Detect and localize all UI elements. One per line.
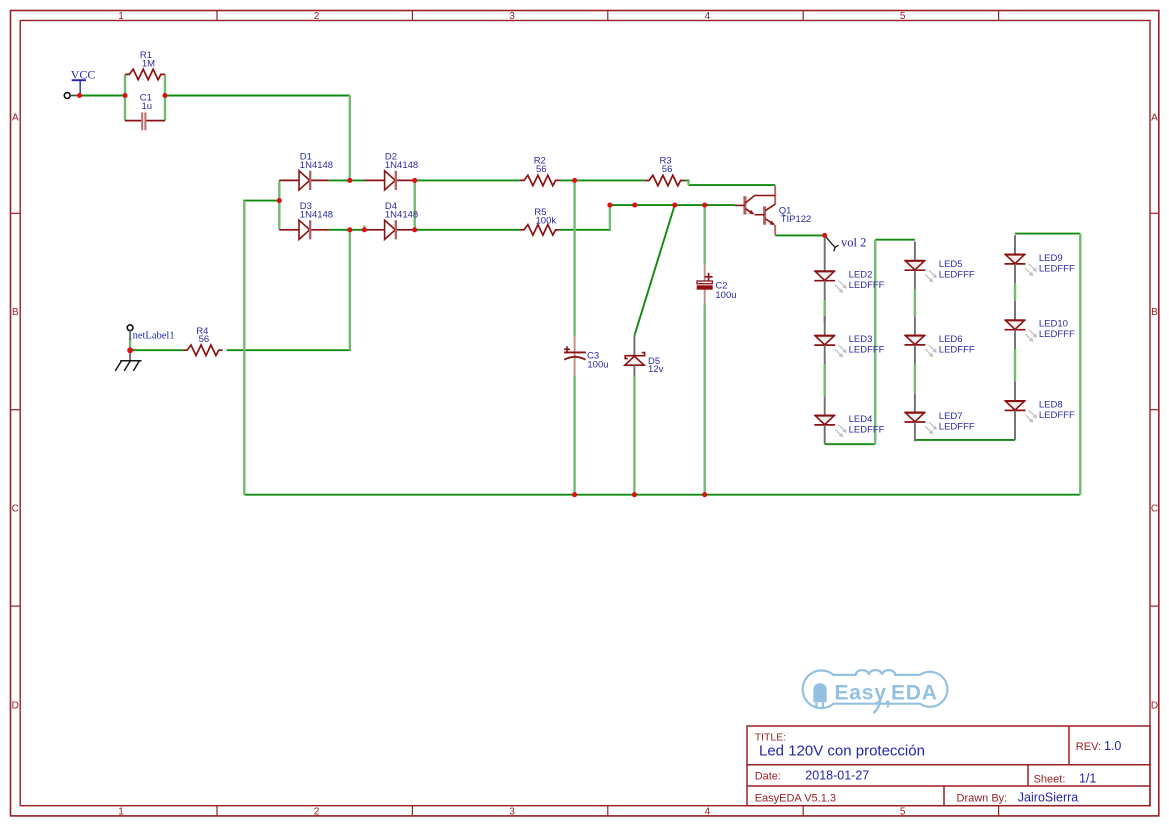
svg-text:1.0: 1.0 [1104,739,1121,753]
svg-text:1N4148: 1N4148 [385,209,418,220]
svg-text:1N4148: 1N4148 [300,209,333,220]
svg-text:D: D [12,700,19,711]
svg-text:TIP122: TIP122 [781,214,812,225]
svg-text:A: A [12,113,19,124]
svg-text:4: 4 [705,11,711,22]
svg-text:3: 3 [509,11,515,22]
svg-text:100u: 100u [587,360,608,371]
svg-text:LEDFFF: LEDFFF [1039,263,1075,274]
svg-text:B: B [1151,307,1158,318]
svg-text:A: A [1151,113,1158,124]
svg-text:LED7: LED7 [939,411,963,422]
svg-text:5: 5 [900,806,906,817]
svg-text:VCC: VCC [71,67,96,81]
svg-text:EasyEDA V5.1.3: EasyEDA V5.1.3 [755,793,836,805]
svg-text:100k: 100k [536,215,557,226]
svg-text:100u: 100u [715,290,736,301]
svg-text:LED10: LED10 [1039,319,1068,330]
svg-text:LEDFFF: LEDFFF [849,280,885,291]
svg-text:LED2: LED2 [849,270,873,281]
svg-text:C: C [12,504,19,515]
svg-text:Easy: Easy [835,682,887,705]
svg-text:LED4: LED4 [849,414,873,425]
svg-text:Sheet:: Sheet: [1034,773,1066,785]
svg-text:1: 1 [118,806,124,817]
svg-text:1/1: 1/1 [1079,771,1096,785]
svg-text:5: 5 [900,11,906,22]
svg-text:EDA: EDA [891,682,938,705]
svg-text:,: , [885,683,891,709]
svg-text:Drawn By:: Drawn By: [957,793,1008,805]
svg-text:REV:: REV: [1076,741,1101,753]
svg-text:LED9: LED9 [1039,253,1063,264]
svg-text:LED8: LED8 [1039,399,1063,410]
svg-text:1M: 1M [142,59,155,70]
svg-text:LEDFFF: LEDFFF [939,270,975,281]
svg-text:1u: 1u [142,101,153,112]
svg-text:1N4148: 1N4148 [385,160,418,171]
svg-text:JairoSierra: JairoSierra [1018,791,1078,805]
svg-text:Led 120V con protección: Led 120V con protección [759,743,925,760]
svg-text:2: 2 [314,806,320,817]
svg-text:netLabel1: netLabel1 [133,330,175,341]
svg-text:LED3: LED3 [849,334,873,345]
svg-text:56: 56 [536,164,547,175]
svg-text:1: 1 [118,11,124,22]
svg-text:vol 2: vol 2 [841,236,866,250]
svg-text:4: 4 [705,806,711,817]
svg-text:56: 56 [199,334,210,345]
svg-text:B: B [12,307,19,318]
svg-text:D: D [1151,700,1158,711]
svg-text:3: 3 [509,806,515,817]
svg-text:56: 56 [662,164,673,175]
svg-text:LEDFFF: LEDFFF [849,345,885,356]
svg-text:LEDFFF: LEDFFF [939,344,975,355]
svg-text:LED6: LED6 [939,334,963,345]
svg-text:LEDFFF: LEDFFF [939,422,975,433]
svg-text:LED5: LED5 [939,259,963,270]
svg-text:LEDFFF: LEDFFF [1039,329,1075,340]
svg-text:LEDFFF: LEDFFF [1039,410,1075,421]
svg-text:2: 2 [314,11,320,22]
svg-text:12v: 12v [648,364,664,375]
svg-text:Date:: Date: [755,771,781,783]
svg-text:LEDFFF: LEDFFF [849,424,885,435]
svg-text:1N4148: 1N4148 [300,160,333,171]
svg-text:2018-01-27: 2018-01-27 [805,769,869,783]
svg-text:C: C [1151,504,1158,515]
